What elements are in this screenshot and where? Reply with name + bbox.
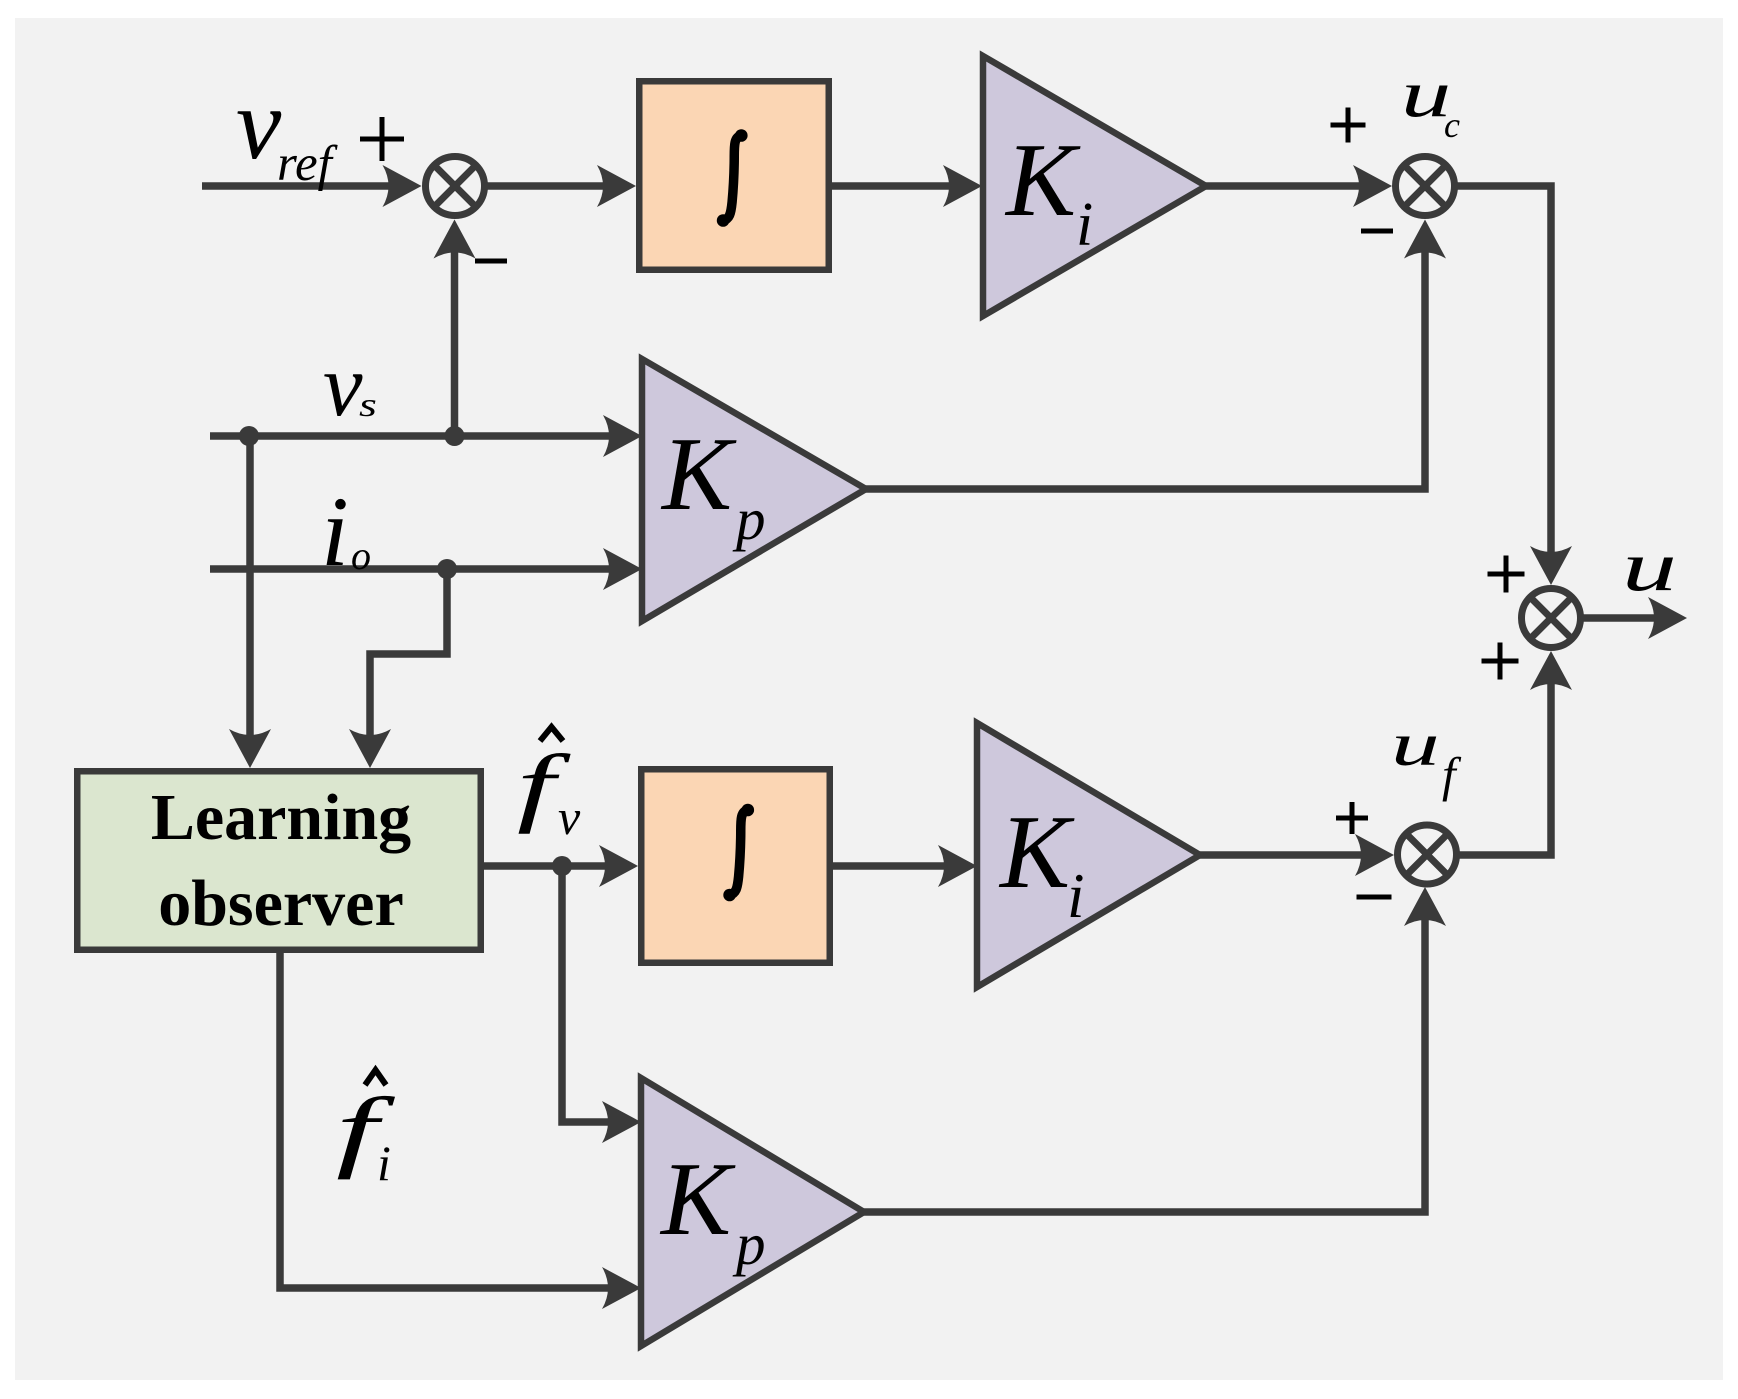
summing junction S4 (uf) (1398, 825, 1457, 884)
minus sign at S4 (1357, 895, 1392, 900)
plus sign upper at S3 (1488, 556, 1525, 593)
gain Kp2 (641, 1078, 864, 1346)
junction dot vs right (445, 426, 465, 446)
svg-text:ref: ref (277, 136, 339, 192)
wire io input (210, 548, 642, 590)
label uc (1401, 57, 1460, 145)
label vs (323, 337, 377, 435)
svg-text:s: s (359, 386, 377, 424)
wire vref input (202, 165, 422, 207)
plus sign at S1 (360, 117, 404, 161)
svg-text:Learning: Learning (151, 781, 411, 854)
wire S2 to S3 (1456, 186, 1572, 585)
svg-text:i: i (321, 476, 349, 587)
summing junction S1 (vref) (426, 157, 485, 216)
minus sign at S1 (475, 259, 507, 264)
plus sign at S2 (1331, 108, 1366, 143)
svg-text:p: p (732, 1211, 766, 1277)
svg-text:o: o (351, 533, 371, 578)
svg-text:v: v (236, 68, 282, 181)
svg-text:i: i (1067, 861, 1085, 931)
integrator block 1 (639, 81, 829, 270)
svg-text:u: u (1391, 710, 1440, 778)
svg-text:K: K (1004, 121, 1081, 238)
wire observer to integrator2 (484, 845, 638, 887)
plus sign at S4 (1336, 802, 1368, 834)
gain Ki2 (977, 723, 1200, 987)
svg-text:i: i (1076, 191, 1093, 259)
wire observer fi to Kp2 (280, 953, 641, 1309)
label fv (f-hat v) (517, 727, 581, 845)
svg-text:v: v (323, 337, 363, 435)
minus sign at S2 (1361, 229, 1393, 234)
wire vs to S1 (434, 220, 476, 437)
summing junction S2 (uc) (1396, 157, 1455, 216)
junction dot vs left (239, 426, 259, 446)
wire fv to Kp2 (562, 866, 641, 1143)
junction dot io (437, 559, 457, 579)
gain Kp1 (642, 359, 866, 621)
integrator block 2 (641, 769, 830, 963)
learning observer box (77, 771, 481, 950)
summing junction S3 (u) (1522, 589, 1581, 648)
wire Kp2 to S4 (864, 887, 1446, 1212)
label uf (1391, 710, 1462, 802)
svg-text:v: v (558, 789, 581, 845)
wire S1 to integrator1 (486, 165, 636, 207)
wire vs input (210, 415, 642, 457)
wire vs to observer (229, 436, 271, 768)
wire integrator2 to Ki2 (833, 845, 977, 887)
wire S3 output (1581, 597, 1687, 639)
wire Ki2 to S4 (1200, 834, 1394, 876)
svg-text:i: i (377, 1135, 391, 1191)
svg-text:K: K (660, 415, 737, 532)
wire Kp1 to S2 (866, 220, 1446, 490)
label io (321, 476, 371, 587)
svg-text:K: K (998, 793, 1075, 910)
svg-text:observer: observer (158, 867, 404, 940)
wire S4 to S3 (1458, 651, 1572, 855)
gain Ki1 (983, 56, 1206, 316)
svg-text:p: p (732, 486, 766, 552)
wire io to observer (349, 569, 447, 768)
label vref (236, 68, 339, 192)
wire Ki1 to S2 (1206, 165, 1392, 207)
plus sign lower at S3 (1482, 643, 1519, 680)
svg-text:u: u (1622, 527, 1677, 606)
svg-text:K: K (659, 1140, 736, 1257)
junction dot fv (552, 856, 572, 876)
wire integrator1 to Ki1 (832, 165, 982, 207)
label fi (f-hat i) (336, 1070, 395, 1191)
svg-text:c: c (1444, 105, 1460, 145)
